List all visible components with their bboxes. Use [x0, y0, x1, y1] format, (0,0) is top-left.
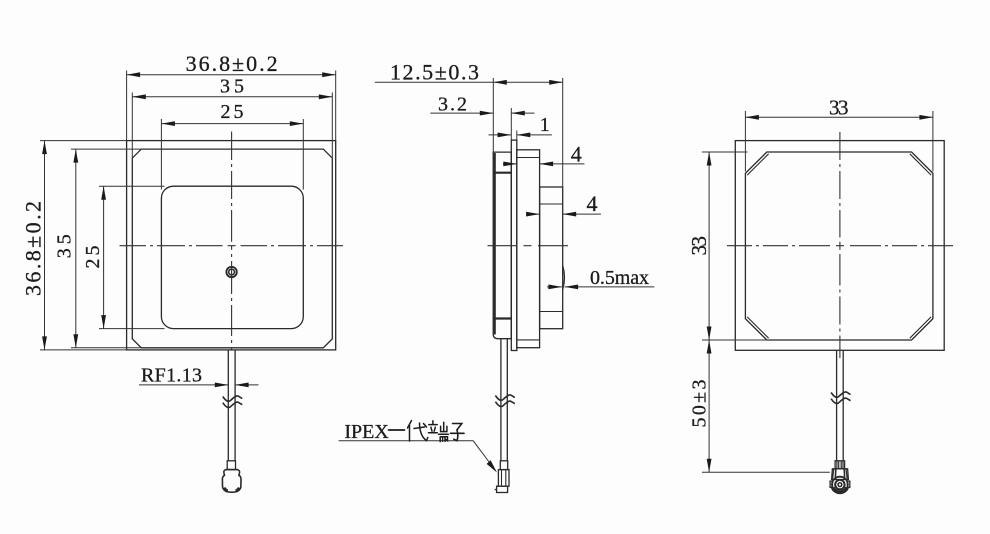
- svg-text:3.2: 3.2: [438, 94, 467, 116]
- svg-text:33: 33: [829, 96, 849, 120]
- svg-text:33: 33: [687, 236, 711, 256]
- svg-text:IPEX: IPEX: [344, 421, 389, 443]
- svg-text:25: 25: [82, 246, 104, 269]
- svg-text:50±3: 50±3: [689, 380, 711, 428]
- svg-text:25: 25: [221, 101, 244, 123]
- svg-text:4: 4: [587, 191, 598, 216]
- svg-text:35: 35: [54, 234, 76, 258]
- svg-text:RF1.13: RF1.13: [141, 365, 202, 387]
- svg-text:35: 35: [220, 75, 244, 97]
- svg-text:1: 1: [540, 114, 550, 136]
- svg-text:0.5max: 0.5max: [590, 267, 649, 289]
- svg-text:4: 4: [571, 142, 582, 167]
- svg-text:36.8±0.2: 36.8±0.2: [186, 51, 278, 76]
- svg-text:36.8±0.2: 36.8±0.2: [20, 201, 45, 296]
- svg-text:12.5±0.3: 12.5±0.3: [390, 60, 479, 85]
